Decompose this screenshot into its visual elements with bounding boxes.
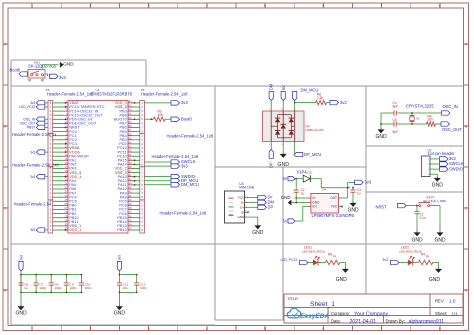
svg-text:1k: 1k	[426, 254, 430, 258]
svg-text:Header-Female-2.54_1x: Header-Female-2.54_1x	[12, 132, 56, 137]
net flag DP_MCU bottom	[294, 142, 296, 155]
svg-text:2: 2	[89, 327, 91, 331]
svg-text:8pF: 8pF	[393, 130, 399, 134]
crystal circuit wires	[381, 112, 394, 114]
svg-text:D+: D+	[240, 205, 244, 209]
ground U2	[436, 174, 438, 176]
svg-text:GND: GND	[432, 182, 444, 188]
svg-text:3: 3	[147, 4, 149, 8]
header P6 female 4x 1x8	[140, 101, 145, 134]
svg-text:Drawn By:: Drawn By:	[386, 319, 405, 324]
svg-text:MINI USB: MINI USB	[239, 186, 254, 190]
svg-text:1.0: 1.0	[449, 299, 456, 304]
net flag DP bottom vertical	[270, 142, 272, 150]
svg-text:A: A	[4, 43, 7, 47]
svg-text:SK-12D02-VG5: SK-12D02-VG5	[28, 63, 57, 68]
svg-text:10K: 10K	[158, 113, 165, 117]
svg-text:GND: GND	[375, 134, 387, 140]
capacitor C11 10n	[118, 275, 120, 283]
EasyEDA logo	[287, 308, 300, 318]
wire OUT to node	[342, 197, 348, 199]
wire EN to 5V	[303, 206, 308, 208]
svg-text:1u: 1u	[357, 192, 361, 196]
svg-text:Your Company: Your Company	[354, 311, 389, 317]
ground crystal	[380, 128, 382, 129]
svg-text:C5: C5	[393, 118, 397, 122]
wire to 3v3	[45, 73, 48, 75]
svg-text:LED_PC13: LED_PC13	[19, 105, 35, 109]
svg-text:4: 4	[206, 4, 208, 8]
svg-text:DP_MCU: DP_MCU	[304, 152, 321, 157]
svg-text:1.5k: 1.5k	[317, 96, 323, 100]
net flag 3v3 output	[355, 180, 364, 184]
wire to ground LED2	[433, 262, 439, 264]
svg-text:R9: R9	[421, 252, 425, 256]
svg-text:Header-Female-2.54_1x8: Header-Female-2.54_1x8	[141, 91, 188, 96]
capacitor C12 100n	[136, 275, 138, 283]
svg-text:0.1u: 0.1u	[420, 216, 426, 220]
diode pair right	[289, 118, 294, 122]
svg-text:8: 8	[439, 4, 441, 8]
svg-text:GND: GND	[277, 162, 289, 168]
svg-text:B: B	[465, 125, 468, 129]
LED2 diode	[408, 260, 413, 266]
resistor R8 1k	[325, 260, 340, 264]
svg-text:LED-0603_R(D1): LED-0603_R(D1)	[302, 250, 325, 254]
resistor R6 1.5k	[316, 100, 327, 104]
svg-text:GND: GND	[238, 215, 246, 219]
frame column ticks	[31, 3, 33, 8]
net flags SWCLK 3v3	[145, 161, 172, 163]
svg-text:5V: 5V	[283, 218, 288, 223]
svg-text:100n: 100n	[54, 286, 61, 290]
svg-text:®: ®	[328, 311, 330, 315]
ground bank1	[20, 292, 22, 304]
capacitor C2 1u input	[295, 179, 297, 190]
connector U3 body	[224, 191, 244, 223]
header P5 female 4x 1x8	[48, 101, 53, 134]
right net flag 3v3 pin64	[145, 102, 172, 104]
svg-text:CRYSTAL3225: CRYSTAL3225	[406, 104, 434, 109]
capacitor C5 8pF	[393, 121, 395, 126]
svg-text:D: D	[465, 289, 468, 293]
svg-text:6: 6	[322, 327, 324, 331]
svg-text:100n: 100n	[85, 286, 92, 290]
svg-text:1u: 1u	[24, 286, 28, 290]
svg-text:3v3: 3v3	[30, 150, 35, 154]
diode array D4 USBLC6-2P6 body	[263, 111, 305, 142]
svg-text:alpharomeo911: alpharomeo911	[409, 319, 445, 325]
svg-text:X1: X1	[416, 116, 420, 120]
svg-text:REV:: REV:	[435, 299, 445, 304]
U4 pin NC	[339, 206, 343, 208]
svg-text:10n: 10n	[123, 286, 128, 290]
svg-text:3v3: 3v3	[181, 100, 188, 105]
capacitor C3 1u output	[352, 187, 354, 189]
svg-text:A: A	[465, 43, 468, 47]
svg-text:100n: 100n	[70, 286, 77, 290]
svg-text:5V: 5V	[283, 176, 288, 181]
ground bank2	[118, 292, 120, 304]
svg-text:3v3: 3v3	[340, 100, 347, 105]
svg-text:OSC_IN: OSC_IN	[443, 104, 458, 109]
capacitor C6 1u	[20, 275, 22, 283]
svg-text:Header-Female-2.54_1x8: Header-Female-2.54_1x8	[12, 163, 59, 168]
title block frame	[284, 294, 463, 323]
svg-text:(TM)STM32F103RBT6: (TM)STM32F103RBT6	[91, 91, 133, 96]
svg-text:B: B	[4, 125, 7, 129]
net flags 5V DM DP	[258, 195, 267, 199]
svg-text:7: 7	[380, 327, 382, 331]
wire key to ground	[439, 206, 441, 231]
svg-text:DM_MCU: DM_MCU	[181, 182, 199, 187]
resistor R9 1k	[418, 260, 433, 264]
svg-text:GND: GND	[336, 277, 348, 283]
U4 pin EN	[307, 206, 311, 208]
svg-text:Date:: Date:	[331, 319, 341, 324]
svg-text:3v3: 3v3	[365, 180, 372, 185]
ground input left arrow	[292, 202, 297, 204]
svg-text:4: 4	[206, 327, 208, 331]
svg-text:SWDIO: SWDIO	[449, 166, 463, 171]
svg-text:8: 8	[439, 327, 441, 331]
svg-text:8pF: 8pF	[393, 105, 399, 109]
ground U3	[248, 216, 258, 218]
svg-text:C: C	[465, 207, 468, 211]
svg-text:Sheet:: Sheet:	[435, 311, 447, 316]
svg-text:Header-Female-2.54_1x8: Header-Female-2.54_1x8	[167, 134, 214, 139]
section dividers	[10, 60, 12, 325]
svg-text:Sheet_1: Sheet_1	[310, 301, 335, 308]
svg-text:1u: 1u	[301, 192, 305, 196]
svg-text:3v3: 3v3	[181, 163, 188, 168]
svg-text:1/1: 1/1	[452, 311, 459, 316]
svg-text:R8: R8	[328, 252, 332, 256]
svg-text:DP: DP	[268, 205, 274, 210]
U4 pin OUT	[339, 197, 343, 199]
net flag 3v3 after R6	[330, 100, 339, 104]
switch SW1 body	[28, 70, 45, 79]
svg-text:6: 6	[322, 4, 324, 8]
svg-text:USBLC6-2P6: USBLC6-2P6	[306, 128, 324, 132]
svg-text:OUT: OUT	[330, 196, 337, 200]
capacitor C4 8pF	[393, 110, 395, 115]
svg-text:U4: U4	[322, 188, 326, 192]
svg-text:LED-0603_R(D3): LED-0603_R(D3)	[399, 250, 422, 254]
connector internal contact marks	[229, 197, 234, 199]
ground flag right	[60, 62, 64, 68]
LED1 diode	[313, 260, 318, 266]
net flag OSC_IN	[442, 111, 451, 115]
header U2 body	[421, 156, 430, 177]
ground under diode array	[282, 142, 284, 153]
svg-text:PB12: PB12	[117, 228, 126, 232]
svg-text:5V: 5V	[281, 85, 286, 90]
svg-text:OSC_OUT: OSC_OUT	[442, 127, 462, 132]
bank1 rails	[21, 274, 81, 276]
svg-text:100n: 100n	[140, 286, 147, 290]
svg-text:1: 1	[31, 4, 33, 8]
svg-text:3v3: 3v3	[118, 255, 122, 260]
svg-text:100n: 100n	[39, 286, 46, 290]
resistor R3 10K boot0	[145, 118, 154, 120]
diode pair left	[275, 118, 280, 122]
svg-text:EasyEDA: EasyEDA	[300, 313, 330, 320]
svg-text:NRST: NRST	[27, 126, 36, 130]
svg-text:(D2): (D2)	[307, 171, 313, 175]
bank2 rails	[119, 274, 136, 276]
capacitor C8 100n	[50, 275, 52, 283]
regulator U4 body	[311, 193, 339, 213]
MCU pins left column	[53, 100, 105, 233]
svg-text:Header-Female-2.54: Header-Female-2.54	[14, 201, 52, 206]
svg-text:3v3: 3v3	[19, 255, 23, 260]
svg-text:GND: GND	[252, 230, 264, 236]
svg-text:TITLE:: TITLE:	[287, 296, 299, 301]
net flags SWDIO DP_MCU DM_MCU	[145, 176, 172, 178]
svg-text:Boot0: Boot0	[181, 116, 192, 121]
svg-text:Company:: Company:	[331, 311, 350, 316]
svg-text:D: D	[4, 289, 7, 293]
wire DM_MCU to R6	[294, 102, 296, 104]
svg-text:D-: D-	[241, 201, 244, 205]
wire to ground LED1	[340, 262, 346, 264]
svg-text:100: 100	[428, 118, 434, 122]
svg-text:Header-Female-2.54_1x8: Header-Female-2.54_1x8	[47, 91, 94, 96]
ground C1	[416, 231, 418, 232]
svg-text:5: 5	[264, 327, 266, 331]
svg-text:3v3: 3v3	[30, 175, 35, 179]
ground C3	[352, 202, 354, 203]
svg-text:VDD_1: VDD_1	[69, 228, 81, 232]
svg-text:33: 33	[129, 227, 133, 231]
crystal X1	[411, 113, 413, 116]
zener center	[281, 124, 286, 128]
svg-text:7: 7	[380, 4, 382, 8]
svg-text:Boot0: Boot0	[10, 68, 21, 73]
svg-text:EN: EN	[312, 205, 317, 209]
svg-text:GND: GND	[411, 237, 423, 243]
svg-text:NRST: NRST	[376, 205, 388, 210]
capacitor C1 100n	[416, 206, 418, 212]
svg-text:3: 3	[147, 327, 149, 331]
svg-text:GND: GND	[429, 277, 441, 283]
wires U4 input side	[296, 202, 307, 204]
net flag 3v3	[50, 74, 59, 78]
svg-text:DM: DM	[269, 83, 274, 90]
MCU pins right column	[114, 100, 140, 233]
svg-text:GND: GND	[434, 237, 446, 243]
svg-text:2021-04-01: 2021-04-01	[350, 319, 377, 325]
wires U3 to net flags	[248, 197, 258, 199]
svg-text:LP5907MFX-3.3/NOPB: LP5907MFX-3.3/NOPB	[312, 213, 355, 218]
svg-text:DM_MCU: DM_MCU	[301, 88, 319, 93]
net flag OSC_OUT	[441, 122, 450, 126]
svg-text:GND: GND	[281, 195, 291, 200]
MCU U1 body STM32F103RBT6	[68, 101, 128, 234]
wire node to 3v3 flag	[347, 182, 349, 187]
net flags 3v3 SWCLK SWDIO	[440, 157, 449, 161]
svg-text:DP: DP	[269, 162, 274, 168]
svg-text:3v3: 3v3	[383, 258, 388, 262]
key switch KEY1 body	[417, 205, 419, 207]
resistor R4 100	[427, 122, 436, 126]
svg-text:2: 2	[89, 4, 91, 8]
net flag Boot0 right	[171, 117, 180, 121]
capacitor C10 100n	[80, 275, 82, 283]
svg-text:GND: GND	[15, 311, 27, 317]
U4 pin GND	[307, 202, 311, 204]
svg-text:LED_PC13: LED_PC13	[281, 258, 298, 262]
wire to GND	[41, 65, 43, 70]
svg-text:1k: 1k	[333, 254, 337, 258]
svg-text:GND: GND	[114, 311, 126, 317]
svg-text:1: 1	[31, 327, 33, 331]
capacitor C9 100n	[65, 275, 67, 283]
svg-text:3v3: 3v3	[59, 75, 66, 80]
frame row ticks	[3, 43, 8, 45]
svg-text:C: C	[4, 207, 7, 211]
svg-text:GND: GND	[63, 62, 74, 67]
no-connect mark ID pin	[247, 211, 249, 213]
wire diode to node	[310, 178, 321, 180]
no-connect marks	[28, 79, 30, 81]
svg-text:3v3: 3v3	[30, 228, 35, 232]
svg-text:5: 5	[264, 4, 266, 8]
svg-text:Header-Female-2.54_1x8: Header-Female-2.54_1x8	[160, 210, 207, 215]
capacitor C7 100n	[35, 275, 37, 283]
svg-text:VCC: VCC	[238, 196, 245, 200]
svg-text:N/C: N/C	[332, 205, 338, 209]
U4 pin IN	[307, 197, 311, 199]
diode array internal rails	[270, 111, 272, 142]
